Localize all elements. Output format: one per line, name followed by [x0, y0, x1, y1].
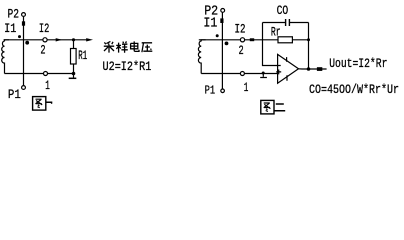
svg-text:P2: P2: [8, 7, 20, 22]
svg-text:1: 1: [45, 78, 50, 93]
svg-text:2: 2: [239, 43, 244, 58]
svg-text:P1: P1: [8, 87, 21, 102]
svg-text:I2: I2: [39, 21, 49, 36]
svg-text:CO: CO: [277, 3, 289, 18]
svg-text:Rr: Rr: [271, 24, 281, 39]
svg-text:I2: I2: [235, 21, 246, 36]
svg-text:CO=45OO/W*Rr*Ur: CO=45OO/W*Rr*Ur: [309, 82, 399, 97]
svg-text:1: 1: [244, 80, 249, 95]
svg-text:R1: R1: [78, 48, 87, 63]
svg-text:P1: P1: [205, 84, 216, 98]
svg-text:I1: I1: [4, 21, 16, 36]
svg-text:2: 2: [40, 43, 45, 58]
svg-text:I1: I1: [203, 16, 217, 32]
svg-text:U2=I2*R1: U2=I2*R1: [103, 59, 152, 74]
svg-text:Uout=I2*Rr: Uout=I2*Rr: [329, 56, 387, 71]
